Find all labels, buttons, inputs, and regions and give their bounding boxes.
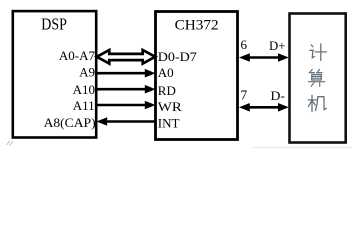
block DSP box	[13, 11, 96, 137]
pin label A10	[73, 82, 95, 97]
wire A10 to RD (arrow right)	[97, 85, 156, 94]
svg-text:A0-A7: A0-A7	[59, 48, 96, 63]
pin number 6	[241, 37, 248, 52]
label CH372	[175, 18, 219, 34]
svg-text:A10: A10	[73, 82, 95, 97]
pin label A0-A7	[59, 48, 96, 63]
svg-text:D-: D-	[271, 88, 286, 103]
net label D+	[269, 38, 286, 53]
svg-text:D0-D7: D0-D7	[158, 49, 198, 64]
wire A11 to WR (arrow right)	[97, 101, 156, 110]
wire A9 to A0 (arrow right)	[97, 69, 156, 78]
wire pin6 to computer D+ (double arrow)	[239, 53, 289, 62]
svg-text:A0: A0	[158, 65, 174, 80]
label 算 (drawn strokes)	[309, 69, 325, 86]
net label D-	[271, 88, 286, 103]
pin label A9	[79, 65, 95, 80]
svg-text:D+: D+	[269, 38, 286, 53]
svg-text:INT: INT	[158, 116, 180, 131]
svg-text:RD: RD	[158, 83, 176, 98]
wire INT to A8(CAP) (arrow left)	[97, 117, 157, 126]
svg-text:A9: A9	[79, 65, 95, 80]
block computer box (计算机)	[290, 14, 346, 143]
svg-text:CH372: CH372	[175, 18, 219, 34]
block CH372 box	[156, 12, 238, 140]
label 机 (drawn strokes)	[308, 95, 326, 111]
wire pin7 to computer D- (double arrow)	[239, 103, 289, 112]
svg-text:DSP: DSP	[41, 15, 67, 34]
svg-text:7: 7	[241, 88, 248, 103]
label DSP	[41, 15, 67, 34]
svg-text:A11: A11	[73, 98, 95, 113]
pin label A0	[158, 65, 174, 80]
svg-text:6: 6	[241, 37, 248, 52]
bus arrow A0-A7 to D0-D7 (hollow double arrow)	[97, 50, 155, 64]
svg-text:WR: WR	[158, 99, 182, 114]
pin label D0-D7	[158, 49, 198, 64]
pin label A11	[73, 98, 95, 113]
scan noise slashes bottom-left	[7, 141, 14, 146]
scan smear under computer box	[252, 147, 352, 149]
pin label RD	[158, 83, 176, 98]
pin label WR	[158, 99, 182, 114]
pin label INT	[158, 116, 180, 131]
label 计 (drawn strokes)	[310, 44, 327, 61]
pin number 7	[241, 88, 248, 103]
svg-text:A8(CAP): A8(CAP)	[44, 115, 96, 130]
pin label A8(CAP)	[44, 115, 96, 130]
